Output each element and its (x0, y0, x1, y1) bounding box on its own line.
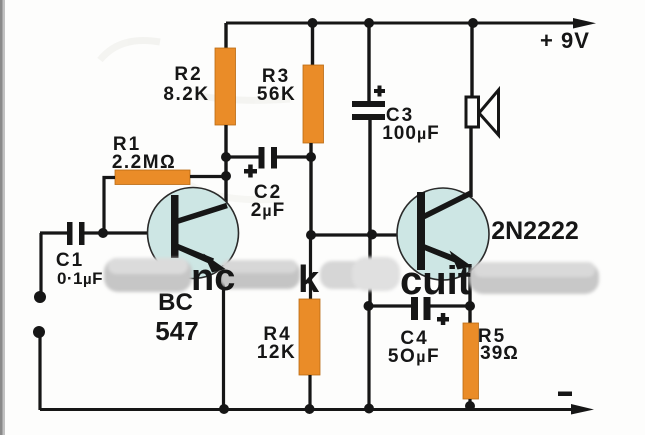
speaker LS1 (466, 90, 499, 135)
transistor Q1 BC547 (148, 188, 239, 279)
node: rail/R3 junction (308, 18, 318, 28)
node: C2/collector junction (221, 152, 231, 162)
node: R4/ground junction (305, 404, 315, 414)
svg-text:+ 9V: + 9V (540, 28, 590, 53)
svg-text:12K: 12K (257, 342, 296, 363)
node: C2/R3 junction (306, 152, 316, 162)
node: C4 left corner junction (364, 301, 374, 311)
BC547 emitter arrow (over watermark) (176, 246, 226, 273)
wire: riser from rail to speaker (470, 23, 473, 98)
label minus (558, 392, 572, 397)
node: R1/collector junction (221, 171, 231, 181)
resistor R1 (115, 170, 190, 185)
svg-text:547: 547 (155, 316, 198, 346)
wire: C1 left lead (40, 231, 68, 234)
faint erased-watermark smudges top left (100, 40, 290, 199)
svg-text:2.2MΩ: 2.2MΩ (112, 152, 176, 173)
svg-text:2N2222: 2N2222 (491, 217, 579, 245)
wire: base divider node to 2N2222 base (311, 233, 397, 236)
resistor R5 (463, 323, 479, 399)
plus mark of C3 (374, 86, 385, 97)
wire: bottom terminal to ground rail (38, 332, 41, 410)
wire: C3 bottom down to 2N2222 base node and C4 (368, 120, 371, 308)
svg-text:8.2K: 8.2K (163, 84, 209, 105)
node: R5/ground rail junction (465, 401, 475, 411)
input terminal bottom (33, 326, 45, 338)
node: R3/R4 divider junction (306, 230, 316, 240)
node: C3 line / base junction (367, 230, 377, 240)
wire: C2 right lead (277, 155, 312, 158)
plus mark of C2 (244, 165, 257, 178)
svg-text:56K: 56K (257, 84, 296, 105)
capacitor C4 (411, 297, 431, 320)
wire: R2 bottom to BC547 collector (224, 125, 227, 208)
wire: speaker to 2N2222 collector (469, 127, 472, 197)
svg-text:2µF: 2µF (251, 200, 285, 221)
wire: C4 corner down to ground rail (367, 306, 370, 410)
svg-text:0·1µF: 0·1µF (57, 269, 103, 288)
svg-text:39Ω: 39Ω (480, 343, 519, 364)
capacitor C1 (67, 222, 85, 245)
capacitor C2 (259, 147, 278, 169)
left scan edge (0, 0, 5, 435)
plus mark of C4 (437, 313, 449, 325)
svg-text:5OµF: 5OµF (388, 346, 440, 367)
svg-text:k: k (298, 259, 320, 301)
wire: R3 bottom to base divider node (309, 143, 312, 237)
svg-text:R2: R2 (174, 64, 202, 85)
wire: R5 bottom to ground rail (468, 399, 471, 410)
svg-text:C1: C1 (56, 250, 84, 271)
resistor R3 (303, 65, 324, 143)
capacitor C3 (352, 101, 385, 120)
node: C3-C4 line/ground junction (364, 404, 374, 414)
wire: divider node down to R4 (309, 235, 312, 301)
wire: C4 left lead (370, 304, 412, 307)
resistor R2 (215, 48, 236, 125)
wire: BC547 emitter down to ground rail (222, 265, 225, 410)
wire: C1 right lead to BC547 base (84, 231, 148, 234)
resistor R4 (299, 299, 320, 375)
wire: R1 right lead to collector line (190, 175, 228, 178)
wire: riser from rail to R3 (311, 23, 314, 67)
wire: C2 left lead (226, 155, 259, 158)
wire: 2N2222 emitter down to R5 (468, 264, 471, 325)
+9V arrowhead (573, 18, 596, 29)
input terminal top (34, 291, 46, 303)
wire: C4 right lead to emitter line (430, 304, 470, 307)
node: rail/C3 junction (364, 18, 374, 28)
svg-text:BC: BC (158, 289, 193, 316)
ground rail arrowhead (571, 404, 594, 415)
transistor Q2 2N2222 (397, 188, 489, 280)
svg-text:100µF: 100µF (382, 123, 440, 144)
wire: ground bottom rail (40, 408, 576, 411)
2N2222 emitter arrow (over watermark) (424, 247, 472, 270)
node: C1/R1 junction (98, 228, 108, 238)
node: emitter/ground junction (219, 404, 229, 414)
wire: +9V top rail (226, 22, 580, 25)
wire: R1 left lead and drop to base node (104, 178, 115, 234)
wire: input terminal up to C1 (39, 233, 42, 297)
wire: R4 bottom to ground rail (308, 375, 311, 410)
node: C4/emitter/R5 junction (465, 301, 475, 311)
node: rail/speaker junction (468, 18, 478, 28)
wire: riser from rail to C3 (367, 23, 370, 103)
wire: riser from rail to R2 (224, 23, 227, 50)
